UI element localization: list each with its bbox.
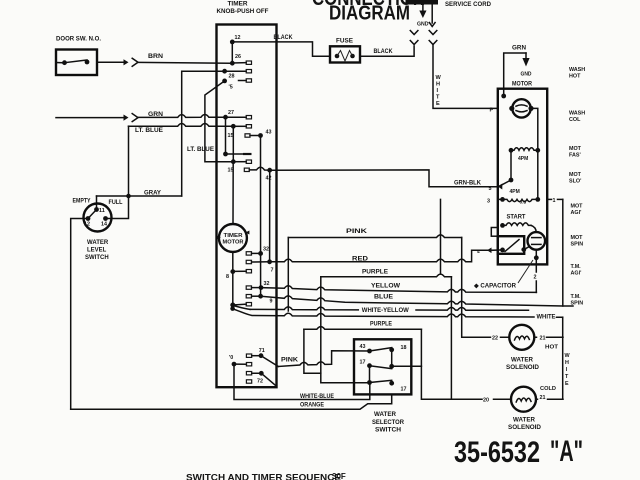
wire cold solenoid right bbox=[536, 398, 563, 400]
wire GRAY horizontal bbox=[97, 195, 182, 197]
wire water level 14 to junction bbox=[106, 196, 129, 219]
svg-text:21: 21 bbox=[540, 395, 546, 401]
svg-text:KNOB-PUSH OFF: KNOB-PUSH OFF bbox=[217, 9, 269, 15]
node centrifugal pivot bbox=[509, 178, 514, 183]
switch arm 72 bbox=[261, 373, 276, 386]
svg-text:21: 21 bbox=[540, 336, 546, 342]
motor start winding bbox=[500, 223, 536, 232]
svg-text:SPIN: SPIN bbox=[571, 242, 584, 248]
timer motor feed vertical bbox=[232, 162, 234, 224]
svg-text:12: 12 bbox=[84, 222, 90, 228]
svg-text:TIMER: TIMER bbox=[224, 233, 243, 239]
svg-text:WATER: WATER bbox=[513, 417, 536, 423]
svg-text:SELECTOR: SELECTOR bbox=[372, 420, 405, 426]
svg-text:35-6532: 35-6532 bbox=[454, 436, 540, 469]
svg-text:START: START bbox=[507, 214, 526, 220]
wire 27 link down bbox=[225, 117, 227, 154]
water level switch contacts 11 12 14 bbox=[86, 207, 108, 221]
selector right post 18 bbox=[389, 347, 394, 352]
contact closed at row 154 bbox=[226, 153, 252, 155]
svg-text:I: I bbox=[437, 88, 439, 94]
disconnect chevrons right pair bbox=[429, 31, 437, 45]
svg-text:SPIN: SPIN bbox=[571, 301, 584, 307]
timer terminal '5 bbox=[222, 79, 227, 84]
wire gray riser to timer 28 bbox=[182, 71, 225, 196]
wire motor 1 vertical to TM SPIN row bbox=[562, 199, 564, 306]
selector arm 17-mid bbox=[370, 366, 392, 369]
contact 71 bbox=[246, 354, 261, 357]
svg-text:HOT: HOT bbox=[569, 74, 581, 80]
timer terminal 42 bbox=[267, 168, 272, 173]
svg-text:◆ CAPACITOR: ◆ CAPACITOR bbox=[473, 283, 517, 290]
svg-text:71: 71 bbox=[259, 348, 265, 354]
timer terminal 9 bbox=[258, 294, 263, 299]
label WHITE (vertical right) bbox=[565, 353, 571, 387]
svg-text:LEVEL: LEVEL bbox=[87, 248, 107, 254]
svg-text:BRN: BRN bbox=[148, 54, 163, 60]
wire PURPLE right vertical to cold solenoid row bbox=[450, 277, 452, 399]
svg-text:SLO': SLO' bbox=[569, 179, 581, 185]
svg-text:BLUE: BLUE bbox=[374, 294, 393, 300]
selector right post mid bbox=[389, 364, 394, 369]
timer terminal '0 bbox=[232, 362, 237, 367]
wire PURPLE lower horizontal bbox=[304, 327, 422, 330]
node capacitor bottom bbox=[534, 255, 539, 260]
wire ORANGE horizontal bbox=[71, 394, 392, 409]
wire PURPLE horizontal bbox=[321, 274, 452, 277]
svg-text:E: E bbox=[565, 381, 569, 387]
hot water solenoid circle bbox=[509, 325, 534, 350]
svg-text:5: 5 bbox=[489, 186, 492, 192]
wire switch to capacitor circle bbox=[524, 246, 530, 249]
part number 35-6532 "A" bbox=[454, 435, 583, 469]
svg-text:DIAGRAM: DIAGRAM bbox=[329, 3, 410, 25]
svg-text:TIMER: TIMER bbox=[228, 2, 249, 8]
svg-text:27: 27 bbox=[228, 110, 234, 116]
svg-text:WHITE-YELLOW: WHITE-YELLOW bbox=[362, 308, 409, 314]
svg-text:WATER: WATER bbox=[511, 357, 534, 363]
wire winding to centrifugal arm bbox=[510, 150, 512, 180]
fuse element bbox=[335, 51, 355, 62]
svg-text:WASH: WASH bbox=[569, 67, 585, 73]
wire WHITE-YELLOW horizontal with hops bbox=[250, 307, 529, 310]
label T.M. AGITATE bbox=[571, 264, 582, 277]
contact 8 bbox=[233, 270, 252, 273]
wire LT. BLUE horizontal with hops bbox=[129, 123, 234, 126]
svg-text:MOT: MOT bbox=[571, 235, 584, 241]
contact '5 bbox=[239, 79, 252, 82]
svg-text:H: H bbox=[436, 82, 440, 88]
svg-text:9: 9 bbox=[270, 299, 273, 305]
contact 27 bbox=[226, 116, 252, 119]
disconnect chevrons left pair bbox=[410, 31, 418, 45]
start capacitor plates bbox=[532, 238, 541, 245]
label WATER SOLENOID (cold) bbox=[508, 417, 542, 431]
svg-text:SWITCH: SWITCH bbox=[85, 255, 109, 261]
svg-text:3: 3 bbox=[487, 199, 490, 205]
svg-text:EMPTY: EMPTY bbox=[73, 199, 91, 205]
wire curve from node to white-yellow row bbox=[233, 305, 250, 309]
service cord plug (black block) bbox=[406, 0, 439, 5]
wire BLUE horizontal with hops bbox=[261, 296, 573, 306]
svg-text:GRN-BLK: GRN-BLK bbox=[454, 180, 482, 186]
svg-text:PURPLE: PURPLE bbox=[370, 321, 392, 327]
timer terminal 72 bbox=[259, 371, 264, 376]
selector arm 43-18 bbox=[370, 348, 392, 351]
start switch node left bbox=[500, 248, 505, 253]
wire motor 1 out bbox=[547, 198, 563, 200]
contact 28 bbox=[225, 70, 252, 73]
wire selector mid-right link bbox=[392, 365, 422, 367]
svg-text:18: 18 bbox=[401, 345, 407, 351]
label TIMER MOTOR bbox=[223, 233, 244, 246]
wire door switch to connector (arrow) bbox=[97, 59, 129, 65]
wire BLACK from 12 to fuse bbox=[232, 42, 330, 56]
timer terminal 12 bbox=[230, 40, 235, 45]
selector right post lower 17 bbox=[389, 381, 394, 386]
svg-text:AGI': AGI' bbox=[571, 271, 582, 277]
timer terminal 28 bbox=[222, 69, 227, 74]
label WASH HOT bbox=[569, 67, 585, 80]
svg-text:I: I bbox=[566, 367, 568, 373]
wire fuse to service chevrons bbox=[360, 46, 414, 56]
timer terminal 27 bbox=[223, 115, 228, 120]
timer terminal 26 bbox=[230, 61, 235, 66]
wire WHITE-BLUE horizontal bbox=[234, 364, 370, 399]
contact row 381 bbox=[246, 380, 251, 383]
svg-text:SOLENOID: SOLENOID bbox=[506, 365, 540, 371]
svg-text:1: 1 bbox=[553, 198, 556, 204]
wire PINK horizontal bbox=[288, 235, 461, 238]
svg-text:PINK: PINK bbox=[346, 229, 368, 235]
wire motor-3 purple link vertical bbox=[440, 199, 442, 274]
ground lead with solid arrow bbox=[419, 5, 426, 19]
wire link 12 to 26 bbox=[231, 42, 233, 63]
contact at row 161.7 bbox=[233, 160, 251, 163]
svg-text:17: 17 bbox=[360, 360, 366, 366]
svg-text:AGI': AGI' bbox=[571, 210, 582, 216]
wire PINK left vertical to white-yellow row bbox=[287, 238, 289, 312]
node junction at gray wire bbox=[126, 194, 131, 199]
water level switch circle bbox=[84, 204, 112, 232]
svg-text:MOT: MOT bbox=[571, 204, 584, 210]
wire PURPLE lower left drop bbox=[304, 329, 321, 373]
selector terminal 17 bbox=[367, 363, 372, 368]
svg-text:T: T bbox=[565, 374, 569, 380]
contact row 32 lower bbox=[246, 286, 261, 289]
wire LT.BLUE drop to gray junction bbox=[128, 126, 130, 196]
motor box outline bbox=[498, 89, 547, 265]
start switch node right bbox=[521, 247, 526, 252]
contact lt-blue row bbox=[233, 125, 251, 128]
timer terminal 71 bbox=[259, 353, 264, 358]
wire 42 vertical to red terminal 7 bbox=[269, 170, 271, 262]
timer motor side ticks bbox=[217, 231, 250, 240]
svg-text:P: P bbox=[490, 107, 494, 113]
wire PINK lower from 71 with hops bbox=[278, 351, 369, 367]
node GRN entry bbox=[501, 94, 506, 99]
wire RED horizontal with hops bbox=[270, 250, 488, 261]
label WATER SOLENOID (hot) bbox=[506, 357, 540, 371]
wire PINK right vertical to hot solenoid bbox=[462, 238, 510, 338]
svg-text:MOTOR: MOTOR bbox=[512, 82, 533, 88]
label MOTOR SLOW bbox=[569, 172, 582, 185]
motor ground arrow bbox=[522, 53, 529, 67]
motor run winding inner marks bbox=[516, 105, 527, 112]
wire PURPLE left vertical down to selector bbox=[321, 277, 370, 383]
cold water solenoid circle bbox=[511, 387, 536, 412]
svg-text:WASH: WASH bbox=[569, 111, 585, 117]
wire WHITE horizontal right bbox=[562, 317, 564, 399]
svg-text:4PM: 4PM bbox=[510, 189, 520, 195]
svg-text:FAS': FAS' bbox=[569, 153, 581, 159]
svg-text:SOLENOID: SOLENOID bbox=[508, 425, 542, 431]
svg-text:LT. BLUE: LT. BLUE bbox=[187, 147, 214, 153]
hot solenoid coil bbox=[515, 336, 530, 340]
selector terminal lower-left bbox=[367, 380, 372, 385]
svg-text:8: 8 bbox=[226, 274, 229, 280]
motor circle node left bbox=[509, 106, 514, 111]
svg-text:GND: GND bbox=[417, 22, 429, 28]
wire BRN to timer terminal 26 bbox=[138, 61, 230, 64]
svg-text:T.M.: T.M. bbox=[571, 264, 582, 270]
contact 15 lower to 42 with hop bbox=[244, 167, 266, 171]
svg-text:2: 2 bbox=[534, 275, 537, 281]
terminal 5 tick bbox=[498, 184, 503, 190]
svg-text:MOT: MOT bbox=[569, 172, 582, 178]
timer terminal 8 bbox=[230, 269, 235, 274]
svg-text:11: 11 bbox=[99, 208, 105, 214]
motor row 3-1 with 4PM lower winding bbox=[498, 197, 540, 202]
svg-text:26: 26 bbox=[235, 54, 241, 60]
wire water level 12 down-left long vertical to orange bbox=[71, 219, 86, 410]
svg-text:7: 7 bbox=[271, 268, 274, 274]
contact row 9 bbox=[246, 295, 260, 298]
svg-text:BLACK: BLACK bbox=[374, 49, 394, 55]
svg-text:ORANGE: ORANGE bbox=[300, 403, 324, 409]
svg-text:PINK: PINK bbox=[281, 357, 299, 363]
line lead with open arrow bbox=[429, 5, 435, 27]
wire 8 down to node bbox=[232, 272, 234, 306]
timer terminal at lt-blue row bbox=[231, 124, 236, 129]
centrifugal start switch box bbox=[498, 236, 524, 254]
wire '5 diagonal to lt-blue branch bbox=[205, 81, 233, 162]
contact 15 upper to 43 bbox=[245, 134, 261, 137]
svg-text:WATER: WATER bbox=[87, 240, 109, 246]
svg-text:SWITCH AND TIMER SEQUENCE: SWITCH AND TIMER SEQUENCE bbox=[186, 473, 341, 480]
svg-text:WATER: WATER bbox=[374, 412, 397, 418]
svg-text:COLD: COLD bbox=[540, 386, 556, 392]
svg-text:32: 32 bbox=[263, 246, 269, 252]
wire 42 out to motor 5 (GRN-BLK) bbox=[270, 170, 498, 187]
svg-text:PURPLE: PURPLE bbox=[362, 270, 388, 276]
timer box outline bbox=[217, 25, 277, 388]
node right rail at winding bbox=[535, 148, 540, 153]
label WHITE (vertical text) bbox=[436, 75, 442, 107]
svg-text:T.M.: T.M. bbox=[571, 294, 582, 300]
timer terminal 7 bbox=[267, 259, 272, 264]
svg-text:WHITE-BLUE: WHITE-BLUE bbox=[300, 394, 334, 400]
wire lt-blue link down bbox=[232, 126, 234, 161]
svg-text:14: 14 bbox=[101, 222, 107, 228]
timer terminal 32 lower bbox=[259, 285, 264, 290]
wire circle to right rail bbox=[530, 108, 538, 199]
svg-text:43: 43 bbox=[360, 344, 366, 350]
svg-text:LT. BLUE: LT. BLUE bbox=[135, 128, 163, 134]
timer terminal 43 bbox=[258, 133, 263, 138]
svg-text:MOT: MOT bbox=[569, 146, 582, 152]
connector chevron (female) wire 2 bbox=[132, 114, 138, 122]
node lt-blue link bottom bbox=[231, 159, 236, 164]
svg-text:E: E bbox=[436, 101, 440, 107]
contact 26 bbox=[232, 61, 251, 64]
svg-text:HOT: HOT bbox=[545, 344, 559, 350]
svg-text:30F: 30F bbox=[332, 472, 346, 480]
wire timer motor to terminal 8 bbox=[232, 252, 234, 272]
wire capacitor terminal 2 bbox=[535, 250, 537, 293]
centrifugal arm to terminal 5 bbox=[499, 180, 511, 186]
svg-text:28: 28 bbox=[229, 74, 235, 80]
svg-text:12: 12 bbox=[235, 35, 241, 41]
svg-text:WHITE: WHITE bbox=[537, 314, 556, 320]
wire GRN into motor bbox=[504, 53, 526, 96]
svg-text:GND: GND bbox=[521, 72, 532, 78]
contact row 32 upper bbox=[246, 252, 260, 255]
svg-text:4PM: 4PM bbox=[518, 156, 528, 162]
label MOTOR SPIN bbox=[571, 235, 584, 248]
svg-text:T: T bbox=[436, 95, 440, 101]
svg-text:42: 42 bbox=[266, 176, 272, 182]
svg-text:43: 43 bbox=[266, 129, 272, 135]
wire hot solenoid right to white rail bbox=[534, 336, 563, 338]
svg-text:17: 17 bbox=[401, 387, 407, 393]
contact at row 304.9 bbox=[233, 303, 252, 306]
motor speed winding 4PM upper bbox=[509, 148, 538, 153]
motor run winding circle bbox=[512, 99, 530, 117]
svg-text:'5: '5 bbox=[229, 84, 233, 90]
door switch contacts and arm bbox=[56, 60, 89, 66]
svg-text:YELLOW: YELLOW bbox=[371, 283, 400, 289]
svg-text:H: H bbox=[565, 360, 569, 366]
wire cold solenoid row bbox=[451, 398, 511, 400]
label MOTOR AGITATE bbox=[571, 204, 584, 217]
connector chevron (female) wire 1 bbox=[132, 58, 138, 66]
svg-text:GRN: GRN bbox=[512, 46, 526, 52]
label CAPACITOR with leader bbox=[473, 260, 533, 290]
timer motor circle bbox=[219, 224, 247, 252]
start switch tab bbox=[491, 228, 498, 237]
motor circle node right bbox=[528, 106, 533, 111]
svg-text:'0: '0 bbox=[229, 355, 233, 361]
svg-text:SERVICE CORD: SERVICE CORD bbox=[445, 2, 492, 8]
start switch arm bbox=[505, 240, 519, 252]
wire 2 line to connector (arrow) bbox=[56, 115, 129, 121]
start capacitor circle bbox=[528, 232, 546, 250]
svg-text:DOOR SW. N.O.: DOOR SW. N.O. bbox=[56, 37, 101, 43]
label WATER SELECTOR SWITCH bbox=[372, 412, 405, 434]
svg-text:0.8: 0.8 bbox=[520, 200, 527, 206]
contact 72 bbox=[246, 372, 261, 375]
wire WHITE vertical from service cord to motor P bbox=[433, 45, 498, 108]
wire red into motor 4 bbox=[491, 249, 503, 251]
svg-text:32: 32 bbox=[264, 281, 270, 287]
wire PURPLE lower right drop to selector mid and cold row bbox=[421, 329, 451, 399]
svg-text:FULL: FULL bbox=[109, 200, 123, 206]
selector left vertical link bbox=[369, 366, 371, 383]
svg-text:"A": "A" bbox=[550, 435, 583, 468]
svg-text:SWITCH: SWITCH bbox=[375, 428, 401, 434]
svg-text:MOTOR: MOTOR bbox=[223, 240, 244, 246]
contact '0 bbox=[234, 363, 252, 366]
node timer lower left bbox=[230, 303, 235, 308]
timer terminal 32 upper bbox=[258, 251, 263, 256]
svg-text:BLACK: BLACK bbox=[274, 35, 294, 41]
selector right vertical link bbox=[391, 350, 393, 367]
selector arm lower bbox=[370, 380, 392, 382]
svg-text:RED: RED bbox=[352, 256, 369, 262]
wire 43 vertical bbox=[260, 136, 262, 297]
label MOTOR FAST bbox=[569, 146, 582, 159]
selector terminal 43 bbox=[367, 349, 372, 354]
svg-text:W: W bbox=[436, 75, 442, 81]
switch arm 71 to pink row bbox=[261, 356, 278, 367]
door switch box bbox=[56, 50, 97, 76]
svg-text:W: W bbox=[565, 353, 571, 359]
svg-text:20: 20 bbox=[483, 398, 489, 404]
wire GRN to timer terminal 27 with hops bbox=[138, 115, 226, 118]
fuse box bbox=[330, 46, 360, 62]
svg-text:22: 22 bbox=[492, 335, 498, 341]
cold solenoid coil bbox=[516, 398, 531, 402]
water selector switch box bbox=[354, 339, 411, 394]
label T.M. SPIN bbox=[571, 294, 584, 307]
label WATER LEVEL SWITCH bbox=[85, 240, 109, 261]
svg-text:72: 72 bbox=[257, 379, 263, 385]
svg-text:COL: COL bbox=[569, 117, 581, 123]
contact row 7 bbox=[246, 260, 269, 263]
svg-text:GRAY: GRAY bbox=[144, 191, 161, 197]
svg-text:FUSE: FUSE bbox=[336, 39, 353, 45]
svg-text:4: 4 bbox=[477, 249, 480, 255]
node 27-link bottom bbox=[223, 152, 228, 157]
red wire terminal tick bbox=[487, 248, 492, 254]
wire YELLOW horizontal with hops bbox=[261, 286, 536, 293]
wire water level 11 riser bbox=[96, 196, 98, 210]
label WASH COLD bbox=[569, 111, 585, 124]
